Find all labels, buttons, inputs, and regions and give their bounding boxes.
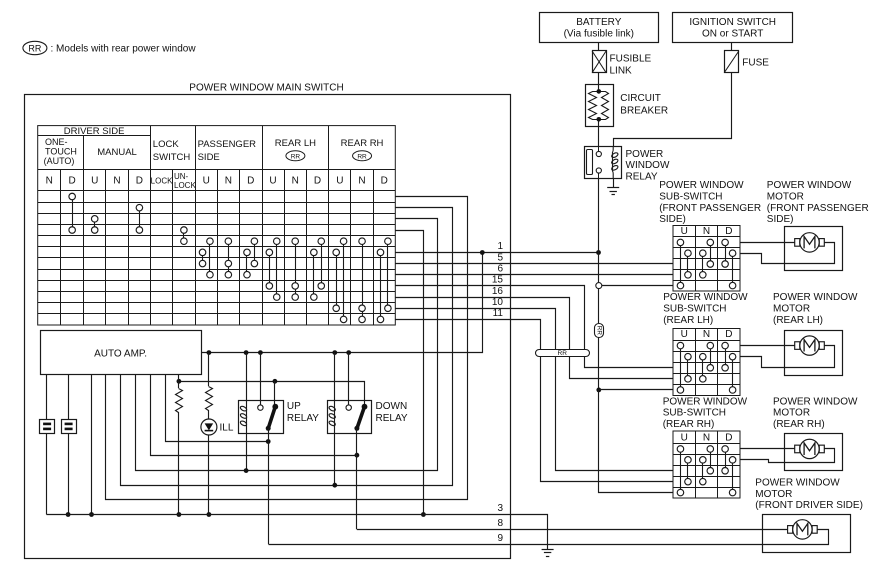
power window relay contact top (598, 147, 600, 152)
wire terminal 1 from main switch row6 to relay feed (395, 252, 598, 254)
ignition switch box (673, 13, 793, 43)
svg-text:TOUCH: TOUCH (45, 146, 77, 156)
ground symbol main (542, 549, 554, 551)
down relay fixed contact (346, 405, 351, 410)
front driver motor M4 (788, 526, 793, 534)
svg-text:SUB-SWITCH: SUB-SWITCH (663, 304, 726, 315)
main switch contacts driver manual D column (139, 208, 141, 230)
svg-text:U: U (203, 176, 210, 187)
ground symbol relay (607, 187, 619, 189)
wire resistor R1 feed line to relay arms (179, 382, 365, 407)
svg-text:D: D (69, 176, 76, 187)
svg-text:POWER WINDOW: POWER WINDOW (659, 180, 744, 191)
wire battery to fusible link (598, 42, 600, 51)
node terminal1 supply branch (480, 250, 485, 255)
svg-text:: Models with rear power windo: : Models with rear power window (51, 44, 197, 55)
svg-text:D: D (381, 176, 388, 187)
wire down relay coil to line4 (334, 427, 336, 485)
svg-text:U: U (269, 176, 276, 187)
wire relay output to rear RH sub-switch row5 (599, 390, 673, 493)
svg-text:MOTOR: MOTOR (767, 191, 804, 202)
wire resistor R1 to ground bus (178, 412, 180, 515)
wire terminal 10 row11 to rear RH sub-switch (396, 309, 673, 471)
svg-text:(FRONT PASSENGER: (FRONT PASSENGER (659, 203, 761, 214)
svg-text:D: D (725, 433, 732, 444)
node resistor R1 top junction (177, 379, 182, 384)
svg-text:U: U (681, 226, 688, 237)
node supply bus to ILL branch (207, 350, 212, 355)
svg-text:ILL: ILL (220, 423, 234, 434)
svg-text:(REAR LH): (REAR LH) (773, 315, 823, 326)
wire terminal 11 row12 to rear RH sub-switch (396, 320, 673, 482)
node capacitor C2 junction on ground bus (66, 512, 71, 517)
wire supply bus from terminal 1 to auto amp (202, 253, 483, 353)
svg-text:REAR LH: REAR LH (275, 138, 316, 149)
power window relay box (585, 147, 622, 179)
wire branch down to up relay arm top (274, 381, 276, 406)
svg-text:(REAR LH): (REAR LH) (663, 315, 713, 326)
wire auto amp to down relay contact arm (line2) (151, 375, 357, 456)
svg-text:6: 6 (497, 264, 503, 275)
rear RH sub-switch table grid (673, 431, 740, 498)
svg-text:3: 3 (497, 503, 503, 514)
rear LH sub-switch table grid (673, 329, 740, 396)
svg-text:(REAR RH): (REAR RH) (663, 419, 715, 430)
rear RH motor M3 (795, 445, 800, 453)
front passenger motor M1 (795, 239, 800, 247)
wire rear LH sub-switch row2 to motor return (741, 346, 835, 368)
svg-text:FUSIBLE: FUSIBLE (610, 54, 652, 65)
front passenger sub-switch contacts (680, 242, 682, 285)
node row4 wire junction on ground bus (421, 512, 426, 517)
svg-text:(AUTO): (AUTO) (44, 156, 75, 166)
svg-text:POWER WINDOW: POWER WINDOW (767, 180, 852, 191)
wire auto amp to main switch row3 (136, 219, 438, 471)
svg-text:(FRONT PASSENGER: (FRONT PASSENGER (767, 203, 869, 214)
wire terminal 9 to driver motor return (269, 530, 829, 545)
svg-text:N: N (113, 176, 120, 187)
front passenger motor box (785, 227, 843, 271)
node supply bus to down relay coil branch (332, 350, 337, 355)
capacitor C2 wire (68, 374, 70, 419)
svg-text:PASSENGER: PASSENGER (198, 139, 257, 150)
node up relay arm top branch junction (273, 379, 278, 384)
svg-text:RR: RR (558, 350, 568, 357)
down relay contact arm (357, 407, 365, 429)
wire auto amp to up relay contact arm (line1) (166, 375, 269, 442)
svg-text:N: N (703, 226, 710, 237)
battery box (540, 13, 659, 43)
svg-text:8: 8 (497, 518, 503, 529)
main switch contacts passenger side U/N/D group (202, 252, 204, 263)
wire capacitor C1 to ground bus (46, 433, 48, 514)
svg-text:N: N (703, 433, 710, 444)
svg-text:N: N (358, 176, 365, 187)
svg-text:CIRCUIT: CIRCUIT (620, 93, 661, 104)
main switch contacts driver side auto D column (72, 196, 74, 230)
node resistor R1 junction on ground bus (177, 512, 182, 517)
wire front passenger sub-switch row1 to motor (740, 242, 795, 244)
RR marker pill vertical on relay output (598, 337, 600, 390)
wire supply bus to up relay fixed contact (260, 353, 262, 405)
svg-text:D: D (314, 176, 321, 187)
svg-text:POWER WINDOW: POWER WINDOW (663, 396, 748, 407)
svg-text:(FRONT DRIVER SIDE): (FRONT DRIVER SIDE) (755, 500, 863, 511)
main switch contacts lock switch UN-LOCK column (183, 230, 185, 241)
wire terminal 8 to driver motor (357, 529, 788, 531)
rear LH motor M2 (795, 342, 800, 350)
svg-text:U: U (681, 433, 688, 444)
svg-text:MOTOR: MOTOR (773, 304, 810, 315)
wire supply bus to resistor R2 (208, 353, 210, 386)
svg-text:LOCK: LOCK (174, 181, 196, 190)
svg-text:U: U (336, 176, 343, 187)
power window relay contact bar (587, 150, 593, 175)
wire relay output to front passenger sub-switch row5 (602, 285, 673, 287)
svg-text:1: 1 (497, 241, 503, 252)
svg-text:LINK: LINK (610, 66, 633, 77)
wire ILL lamp to ground bus (208, 435, 210, 515)
svg-text:MANUAL: MANUAL (97, 147, 137, 158)
svg-text:IGNITION SWITCH: IGNITION SWITCH (689, 17, 776, 28)
connector circle on relay output at terminal15 level (598, 286, 600, 324)
svg-text:MOTOR: MOTOR (773, 408, 810, 419)
svg-text:N: N (225, 176, 232, 187)
wire terminal 6 row8 to front passenger sub-switch (395, 274, 673, 276)
svg-text:RR: RR (28, 43, 41, 53)
node supply bus to up relay contact branch (258, 350, 263, 355)
legend RR connector oval (23, 41, 47, 54)
svg-text:SIDE): SIDE) (659, 214, 686, 225)
power window relay contact bottom (596, 168, 601, 173)
resistor R2 (206, 387, 213, 411)
fusible link (593, 51, 607, 73)
wire rear LH sub-switch row1 to motor (740, 345, 795, 347)
node down relay coil junction on line4 (332, 483, 337, 488)
wire supply bus to up relay coil (246, 353, 248, 405)
wire supply bus to down relay fixed contact (348, 353, 350, 405)
wire resistor R2 to ILL lamp (208, 410, 210, 419)
svg-text:D: D (247, 176, 254, 187)
svg-text:SUB-SWITCH: SUB-SWITCH (663, 408, 726, 419)
wire rear RH sub-switch row2 to motor return (741, 449, 835, 463)
wire down relay arm down to terminal 8 run (356, 428, 358, 529)
svg-text:SIDE: SIDE (198, 152, 220, 163)
wire power window relay coil to ground (613, 178, 615, 188)
svg-text:U: U (91, 176, 98, 187)
svg-text:N: N (703, 329, 710, 340)
up relay fixed contact (258, 405, 263, 410)
ILL illumination diode (201, 419, 217, 435)
node up relay arm junction (266, 439, 271, 444)
svg-text:BREAKER: BREAKER (620, 106, 668, 117)
svg-text:15: 15 (492, 275, 504, 286)
svg-text:RR: RR (357, 153, 367, 160)
svg-text:LOCK: LOCK (153, 139, 180, 150)
svg-text:D: D (136, 176, 143, 187)
svg-text:AUTO AMP.: AUTO AMP. (94, 349, 147, 360)
svg-text:N: N (292, 176, 299, 187)
main switch contacts driver manual U column (94, 219, 96, 230)
svg-text:BATTERY: BATTERY (576, 17, 622, 28)
wire auto amp pin to resistor R1 (178, 374, 180, 388)
wire capacitor C2 to ground bus (68, 433, 70, 514)
node ILL junction on ground bus (207, 512, 212, 517)
svg-text:DRIVER SIDE: DRIVER SIDE (64, 126, 125, 137)
svg-text:LOCK: LOCK (151, 177, 173, 186)
wire terminal 5 row7 to front passenger sub-switch (395, 263, 673, 265)
svg-text:(Via fusible link): (Via fusible link) (564, 29, 634, 40)
svg-text:RR: RR (291, 153, 301, 160)
wire terminal 3 ground bus (47, 515, 548, 550)
svg-text:U: U (681, 329, 688, 340)
RR marker pill over rear window wires (536, 350, 590, 357)
auto amp box (41, 331, 202, 375)
svg-text:ONE-: ONE- (45, 137, 68, 147)
svg-text:RELAY: RELAY (626, 172, 658, 183)
svg-text:D: D (725, 226, 732, 237)
down relay box (328, 401, 372, 434)
svg-text:POWER WINDOW: POWER WINDOW (773, 292, 858, 303)
circuit breaker element (589, 92, 599, 120)
svg-text:SWITCH: SWITCH (153, 152, 191, 163)
node relay output to rear LH row5 (596, 388, 601, 393)
svg-text:POWER: POWER (626, 149, 664, 160)
capacitor C1 (40, 420, 55, 434)
wire auto amp to main switch row2 (121, 208, 453, 486)
svg-text:POWER WINDOW: POWER WINDOW (663, 292, 748, 303)
circuit breaker box (586, 85, 614, 127)
wire power window relay output down the right side (598, 178, 600, 253)
power window main switch enclosure box (25, 95, 511, 559)
svg-text:UN-: UN- (174, 172, 189, 181)
down relay coil (334, 405, 336, 427)
svg-text:UP: UP (287, 401, 301, 412)
wire fuse to power window relay coil (614, 73, 732, 147)
wire supply bus to down relay coil (334, 353, 336, 405)
svg-text:SUB-SWITCH: SUB-SWITCH (659, 191, 722, 202)
wire front passenger sub-switch row2 to motor return (741, 243, 835, 264)
svg-text:(REAR RH): (REAR RH) (773, 419, 825, 430)
rear LH sub-switch contacts (680, 346, 682, 390)
svg-text:DOWN: DOWN (376, 401, 408, 412)
rear RH sub-switch contacts (680, 449, 682, 493)
node up relay coil junction on line3 (244, 468, 249, 473)
svg-text:POWER WINDOW MAIN SWITCH: POWER WINDOW MAIN SWITCH (189, 82, 343, 93)
svg-text:D: D (725, 329, 732, 340)
wire circuit breaker to power window relay (598, 126, 600, 146)
node supply bus to up relay coil branch (244, 350, 249, 355)
wire auto amp to main switch row1 (106, 197, 468, 500)
up relay box (239, 401, 284, 434)
svg-text:16: 16 (492, 286, 504, 297)
resistor R1 (176, 389, 183, 413)
svg-text:WINDOW: WINDOW (626, 160, 670, 171)
wire up relay arm down to terminal 9 run (268, 428, 270, 544)
wire up relay coil to line3 (246, 427, 248, 471)
svg-text:FUSE: FUSE (742, 57, 769, 68)
wire terminal 15 row9 to rear LH sub-switch (396, 286, 673, 368)
fuse (725, 51, 739, 73)
power window relay coil (612, 152, 614, 171)
wire main switch row4 to ground bus (396, 231, 424, 515)
wire terminal 16 row10 to rear LH sub-switch (396, 298, 673, 379)
svg-text:11: 11 (493, 308, 504, 319)
svg-text:RR: RR (595, 326, 602, 336)
wire rear RH sub-switch row1 to motor (740, 448, 795, 450)
svg-text:POWER WINDOW: POWER WINDOW (755, 477, 840, 488)
svg-text:REAR RH: REAR RH (341, 138, 384, 149)
svg-text:ON or START: ON or START (702, 29, 763, 40)
svg-text:MOTOR: MOTOR (755, 489, 792, 500)
capacitor C2 (62, 420, 77, 434)
node auto amp pin3 junction on ground bus (89, 512, 94, 517)
node supply bus to down relay contact branch (346, 350, 351, 355)
svg-text:POWER WINDOW: POWER WINDOW (773, 396, 858, 407)
main switch table grid (38, 126, 396, 325)
wire auto amp pin3 to ground bus (91, 374, 93, 514)
svg-text:N: N (46, 176, 53, 187)
front driver motor box (763, 515, 851, 553)
svg-text:5: 5 (497, 252, 503, 263)
wire relay output to rear LH sub-switch row5 (599, 389, 673, 391)
svg-text:RELAY: RELAY (287, 413, 319, 424)
svg-text:RELAY: RELAY (376, 413, 408, 424)
svg-text:10: 10 (492, 297, 504, 308)
rear LH motor box (785, 331, 843, 376)
main switch contacts rear LH U/N/D group (269, 252, 271, 286)
front passenger sub-switch table grid (673, 226, 740, 292)
capacitor C1 wire (46, 374, 48, 419)
up relay contact arm (268, 407, 275, 429)
node terminal1 relay feed junction (596, 250, 601, 255)
svg-text:SIDE): SIDE) (767, 214, 794, 225)
node down relay arm junction (355, 453, 360, 458)
main switch contacts rear RH U/N/D group (336, 252, 338, 308)
wire ignition switch to fuse (731, 42, 733, 51)
svg-text:9: 9 (497, 533, 503, 544)
rear RH motor box (785, 434, 843, 471)
up relay coil (246, 405, 248, 427)
wire fusible link to circuit breaker (598, 73, 600, 85)
